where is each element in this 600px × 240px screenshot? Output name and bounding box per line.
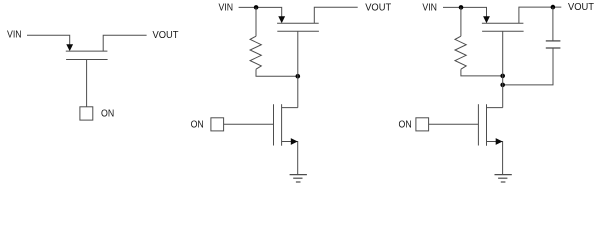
junction VOUT node (circuit 3)	[551, 5, 556, 10]
wire VIN to Q4 source	[443, 7, 487, 16]
junction capacitor node (circuit 3)	[500, 83, 505, 88]
transistor Q5 source arrow	[496, 138, 503, 145]
svg-text:ON: ON	[101, 108, 114, 119]
transistor Q2 gate bar	[277, 30, 319, 32]
wire VIN node down to resistor R2	[460, 7, 462, 36]
junction resistor node (circuit 3)	[500, 74, 505, 79]
resistor R1	[250, 36, 261, 69]
wire Q3 source to ground	[282, 142, 298, 175]
ground (circuit 3)	[495, 175, 512, 182]
svg-text:VOUT: VOUT	[153, 30, 180, 41]
wire Q5 source to ground	[487, 142, 503, 175]
wire Q5 drain stub	[487, 107, 503, 109]
ON control box (circuit 3)	[416, 118, 429, 131]
wire resistor R2 bottom to gate node	[461, 69, 503, 76]
transistor Q1 source arrow	[66, 44, 73, 51]
wire capacitor C1 bottom to gate node	[503, 48, 553, 85]
junction VIN node (circuit 2)	[254, 5, 259, 10]
wire VIN to Q1 source	[27, 35, 70, 45]
wire Q4 gate / gate node / Q5 drain vertical	[502, 31, 504, 107]
svg-text:ON: ON	[191, 120, 204, 131]
svg-text:VOUT: VOUT	[365, 2, 392, 13]
ON control box (circuit 1)	[80, 107, 93, 120]
transistor Q4 channel bar	[482, 22, 524, 24]
wire VIN to Q2 source	[239, 7, 282, 16]
wire ON box to Q3 gate	[224, 123, 274, 125]
ground (circuit 2)	[290, 175, 307, 182]
svg-text:VIN: VIN	[219, 2, 234, 13]
wire Q1 gate to ON box	[86, 60, 88, 107]
ON control box (circuit 2)	[211, 118, 224, 131]
transistor Q2 channel bar	[277, 22, 319, 24]
wire Q2 drain to VOUT	[314, 7, 357, 23]
transistor Q4 source arrow	[483, 16, 490, 23]
svg-text:VOUT: VOUT	[568, 2, 595, 13]
transistor Q3 source arrow	[291, 138, 298, 145]
transistor Q2 source arrow	[278, 16, 285, 23]
wire Q3 drain stub	[282, 107, 298, 109]
wire VIN node down to resistor R1	[255, 7, 257, 36]
transistor Q3 gate bar	[273, 104, 275, 145]
transistor Q1 channel bar	[66, 50, 108, 52]
wire Q1 drain to VOUT	[103, 35, 146, 51]
capacitor C1	[546, 41, 561, 48]
svg-text:VIN: VIN	[422, 2, 437, 13]
wire VOUT node to capacitor C1	[552, 7, 554, 41]
junction VIN node (circuit 3)	[459, 5, 464, 10]
wire ON box to Q5 gate	[429, 123, 479, 125]
transistor Q1 gate bar	[66, 59, 108, 61]
resistor R2	[455, 36, 466, 69]
svg-text:VIN: VIN	[7, 30, 22, 41]
transistor Q5 channel bar	[486, 104, 488, 146]
wire Q4 drain to VOUT	[519, 7, 561, 23]
wire Q2 gate / gate node / Q3 drain vertical	[297, 31, 299, 107]
svg-text:ON: ON	[399, 120, 412, 131]
transistor Q5 gate bar	[477, 104, 479, 145]
transistor Q4 gate bar	[482, 30, 523, 32]
junction gate node (circuit 2)	[296, 74, 301, 79]
transistor Q3 channel bar	[281, 104, 283, 146]
wire resistor R1 bottom to gate node	[256, 69, 298, 76]
